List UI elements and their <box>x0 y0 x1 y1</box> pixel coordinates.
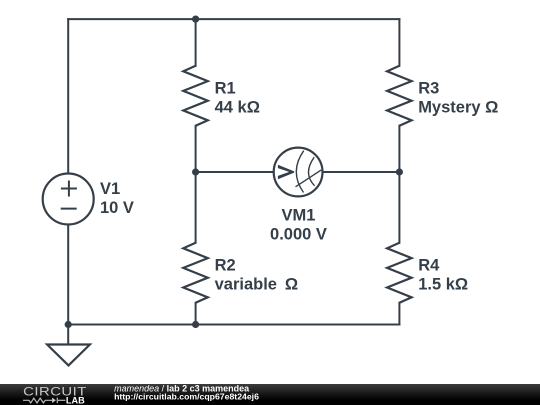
svg-text:LAB: LAB <box>66 395 85 405</box>
svg-text:http://circuitlab.com/cqp67e8t: http://circuitlab.com/cqp67e8t24ej6 <box>114 392 259 402</box>
